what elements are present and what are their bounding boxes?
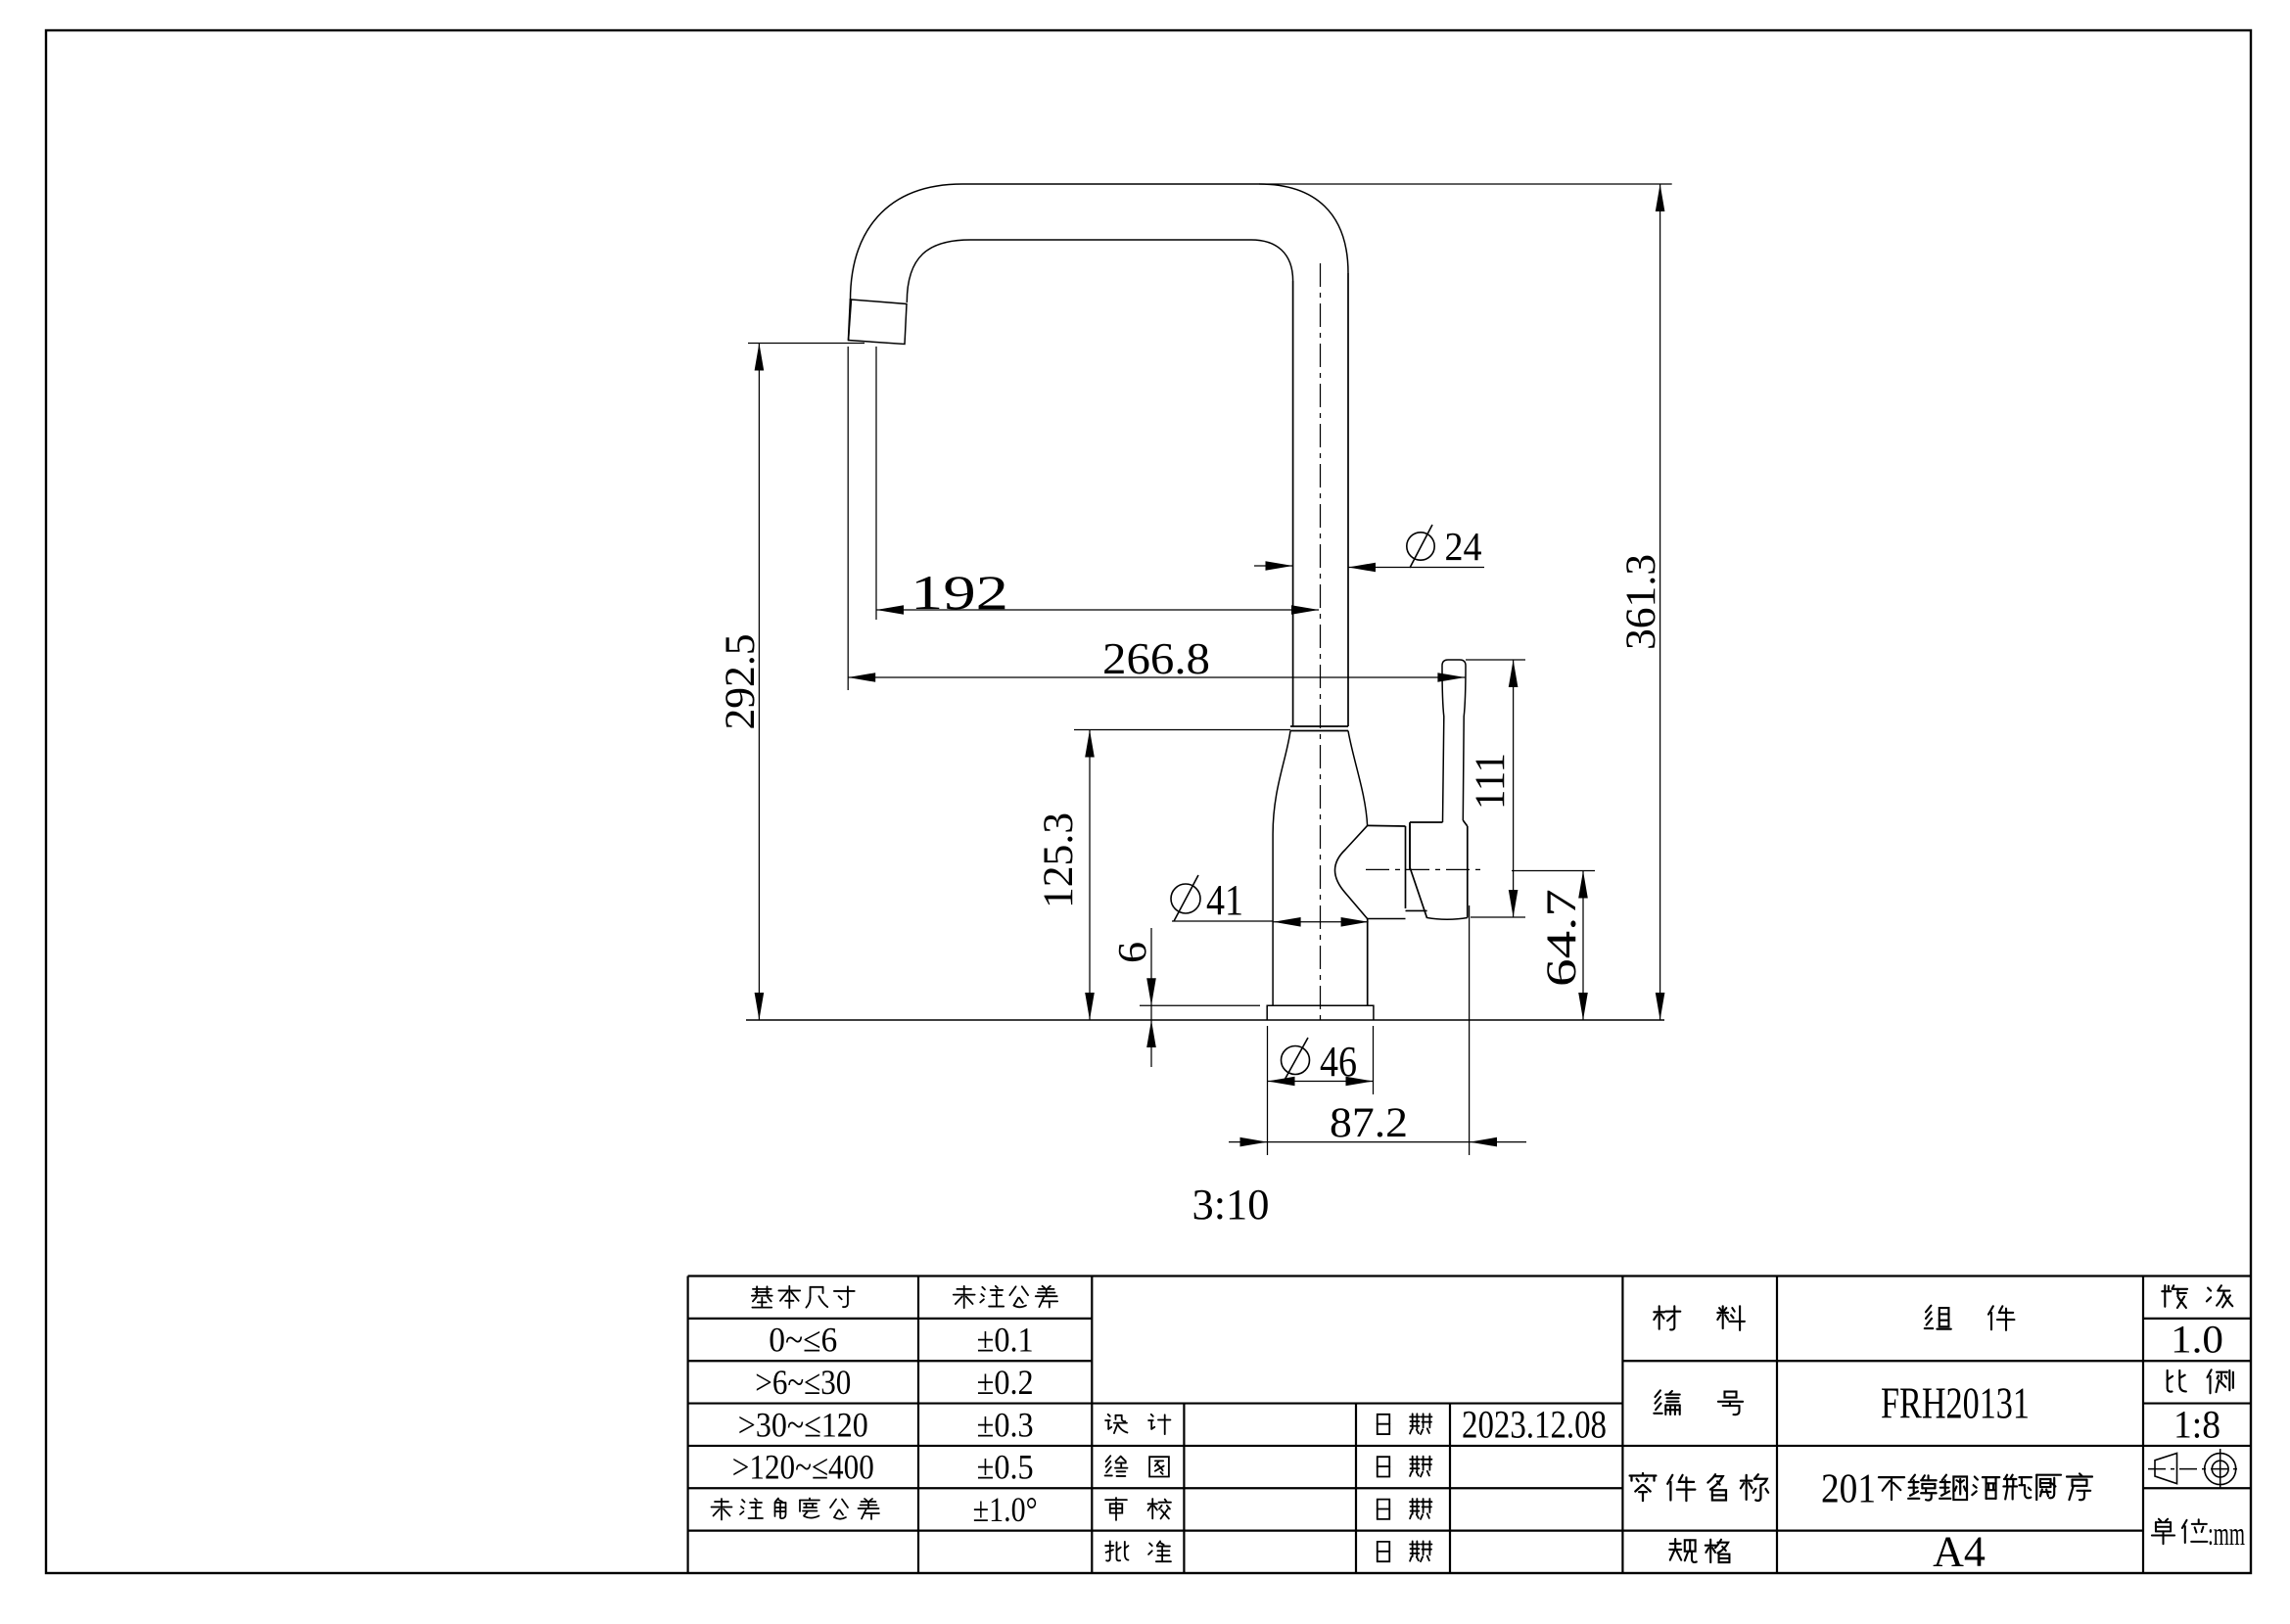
title block row line 4 (688, 1402, 1623, 1404)
diameter symbol D46 (1282, 1046, 1310, 1075)
dimension line 292.5 (758, 344, 760, 1021)
svg-text:±0.5: ±0.5 (977, 1448, 1034, 1487)
title block vertical: tolerance divider (917, 1276, 919, 1574)
title block vertical: right label divider (1776, 1276, 1778, 1574)
title block table top line (688, 1275, 2251, 1276)
riser tube vertical centerline (1320, 263, 1322, 1020)
arrow left D41 (1274, 917, 1301, 927)
dimension line 87.2 (1229, 1141, 1526, 1143)
label 规格 (1669, 1539, 1697, 1562)
handle boss bottom edge (1427, 918, 1468, 920)
title block row line 7 (688, 1530, 1623, 1532)
leader line D41 (1172, 920, 1273, 922)
title block vertical: left table right edge (1091, 1276, 1093, 1574)
svg-text:361.3: 361.3 (1618, 554, 1664, 650)
svg-text:41: 41 (1206, 876, 1243, 924)
svg-text:>120~≤400: >120~≤400 (732, 1448, 874, 1487)
svg-text:87.2: 87.2 (1330, 1100, 1408, 1146)
arrow right 87.2 (1240, 1137, 1268, 1147)
arrow down 292.5 (755, 993, 765, 1020)
gooseneck left inner arc (907, 240, 970, 302)
gooseneck right outer arc (1259, 184, 1348, 273)
valve horizontal centerline (1366, 868, 1482, 870)
svg-text:292.5: 292.5 (718, 634, 764, 730)
extension line valve centerline level (1512, 870, 1595, 872)
arrow up 6 (1146, 1020, 1156, 1047)
svg-text:±0.3: ±0.3 (977, 1405, 1034, 1444)
svg-text:>6~≤30: >6~≤30 (755, 1363, 851, 1402)
base plate (1267, 1005, 1374, 1020)
faucet spout tube inner top line (970, 239, 1251, 241)
arrow up 64.7 (1578, 871, 1588, 899)
riser tube left edge (1292, 281, 1294, 726)
svg-text:±0.1: ±0.1 (977, 1321, 1034, 1360)
arrow left 266.8 (848, 673, 875, 682)
header text 基本尺寸 (752, 1286, 772, 1307)
spout outer left edge (849, 299, 851, 341)
header text 未注公差 (954, 1286, 975, 1308)
svg-text:266.8: 266.8 (1102, 633, 1210, 683)
dimension line 111 (1513, 660, 1515, 917)
handle lever outline (1442, 660, 1466, 822)
arrow up 292.5 (755, 344, 765, 371)
svg-text:±1.0°: ±1.0° (973, 1490, 1038, 1529)
handle boss top edge (1410, 821, 1443, 823)
collar lower line (1290, 730, 1348, 732)
arrow right D24 (1266, 561, 1293, 571)
extension line spout center (875, 347, 877, 620)
label 材料 (1654, 1306, 1680, 1329)
label 比例 (2168, 1370, 2186, 1392)
dimension line D41 (1274, 921, 1369, 923)
valve body front edge (1405, 826, 1407, 908)
title block vertical: revision column divider (2142, 1276, 2144, 1574)
dimension line 64.7 (1582, 871, 1584, 1021)
arrow down 111 (1509, 890, 1519, 917)
spout aerator cap (849, 300, 908, 345)
arrow right D46 (1346, 1077, 1374, 1087)
spout outlet extension line (748, 343, 865, 345)
svg-text:3:10: 3:10 (1192, 1181, 1270, 1229)
handle boss right edge (1467, 826, 1469, 918)
extension line handle right (1469, 905, 1471, 1155)
svg-text:201: 201 (1821, 1466, 1876, 1511)
faucet spout tube outer top line (962, 183, 1259, 185)
svg-text:0~≤6: 0~≤6 (769, 1321, 837, 1360)
svg-text:64.7: 64.7 (1539, 889, 1585, 987)
label 日期 row 7 (1378, 1542, 1389, 1561)
handle boss right step (1463, 820, 1468, 826)
leader line D24 (1348, 567, 1484, 569)
label 设计 (1105, 1415, 1127, 1433)
label 零件名称 (1630, 1473, 1657, 1501)
title block vertical: date label divider (1355, 1404, 1357, 1573)
riser tube right edge (1347, 273, 1349, 726)
svg-text:24: 24 (1445, 524, 1482, 569)
title block vertical: right section left edge (1621, 1276, 1623, 1574)
valve body top edge (1368, 824, 1406, 827)
arrow right 266.8 (1437, 673, 1465, 682)
bottle body left profile (1273, 731, 1290, 1006)
svg-text:111: 111 (1468, 753, 1514, 810)
arrow up 125.3 (1085, 730, 1095, 758)
label 版次 (2162, 1285, 2187, 1308)
dimension line 125.3 (1089, 730, 1091, 1021)
extension line handle top (1466, 659, 1525, 661)
label 日期 row 5 (1378, 1457, 1389, 1476)
extension line base plate top (1140, 1004, 1260, 1006)
gooseneck left outer arc (851, 184, 963, 301)
label 编号 (1654, 1390, 1679, 1415)
svg-text:A4: A4 (1933, 1527, 1986, 1575)
arrow down 6 (1146, 978, 1156, 1005)
svg-text:>30~≤120: >30~≤120 (738, 1405, 868, 1444)
svg-text:2023.12.08: 2023.12.08 (1462, 1402, 1607, 1446)
dimension tail left D24 (1254, 565, 1293, 567)
svg-text:1:8: 1:8 (2173, 1402, 2220, 1446)
svg-text:6: 6 (1109, 942, 1154, 963)
title block vertical: sign label divider (1183, 1404, 1185, 1573)
arrow down 64.7 (1578, 993, 1588, 1020)
top extension line for 361.3 (1259, 183, 1672, 185)
arrow right D41 (1341, 917, 1369, 927)
extension line collar level (1074, 729, 1290, 731)
diameter symbol D24 (1407, 533, 1434, 560)
label 批准 (1105, 1541, 1128, 1560)
arrow up 111 (1509, 660, 1519, 687)
svg-text:46: 46 (1320, 1038, 1357, 1086)
svg-text::mm: :mm (2208, 1516, 2245, 1553)
label 日期 row 6 (1378, 1500, 1389, 1519)
label 日期 row 4 (1378, 1415, 1389, 1434)
dimension line 6 (1150, 928, 1152, 1067)
dimension line 192 (876, 609, 1319, 611)
valve bottom edge (1368, 918, 1406, 920)
value 组件 (1925, 1306, 1951, 1329)
handle boss left edge (1409, 822, 1411, 870)
label 单位:mm (2152, 1519, 2174, 1545)
label 绘图 (1105, 1456, 1128, 1476)
arrow left D24 (1348, 563, 1376, 573)
mounting surface line (746, 1019, 1664, 1021)
extension line spout left edge (847, 347, 849, 690)
arrow down 125.3 (1085, 993, 1095, 1020)
extension line base right (1373, 1026, 1375, 1094)
svg-text:±0.2: ±0.2 (977, 1363, 1034, 1402)
title block row line 2 (left table and revision col) (688, 1318, 1093, 1320)
arrow up 361.3 (1656, 184, 1665, 211)
svg-text:192: 192 (911, 565, 1008, 620)
swivel intersection beak curve (1335, 825, 1368, 918)
arrow left D46 (1268, 1077, 1295, 1087)
extension line base left (1267, 1026, 1269, 1155)
arrow left 192 (876, 605, 904, 615)
collar upper line (1290, 725, 1348, 727)
title block row line 5 (688, 1445, 1623, 1447)
handle boss diagonal edge (1410, 867, 1427, 918)
bottle body right profile (1348, 731, 1368, 826)
arrow right 192 (1291, 605, 1319, 615)
bottle body right edge lower (1367, 919, 1369, 1006)
title block vertical: date value divider (1449, 1404, 1451, 1573)
title block row line 6 (688, 1487, 1623, 1489)
diameter symbol D41 (1171, 884, 1200, 913)
gooseneck right inner arc (1251, 240, 1293, 281)
svg-text:1.0: 1.0 (2171, 1318, 2223, 1362)
first-angle projection symbol (2148, 1468, 2241, 1470)
label 未注角度公差 (712, 1499, 732, 1520)
extension line handle boss bottom (1471, 916, 1525, 918)
valve body inner edge (1409, 824, 1411, 868)
arrow down 361.3 (1656, 993, 1665, 1020)
dimension line 361.3 (1659, 184, 1661, 1020)
label 审核 (1105, 1498, 1127, 1520)
title block vertical: table left edge (686, 1276, 688, 1574)
dimension line D46 (1268, 1081, 1374, 1083)
svg-text:125.3: 125.3 (1036, 812, 1082, 908)
dimension line 266.8 (848, 676, 1465, 678)
arrow left 87.2 (1470, 1137, 1497, 1147)
svg-text:FRH20131: FRH20131 (1881, 1378, 2030, 1428)
valve lower step edge (1406, 909, 1427, 911)
title block row line 3 (left table and right section) (688, 1360, 1093, 1362)
